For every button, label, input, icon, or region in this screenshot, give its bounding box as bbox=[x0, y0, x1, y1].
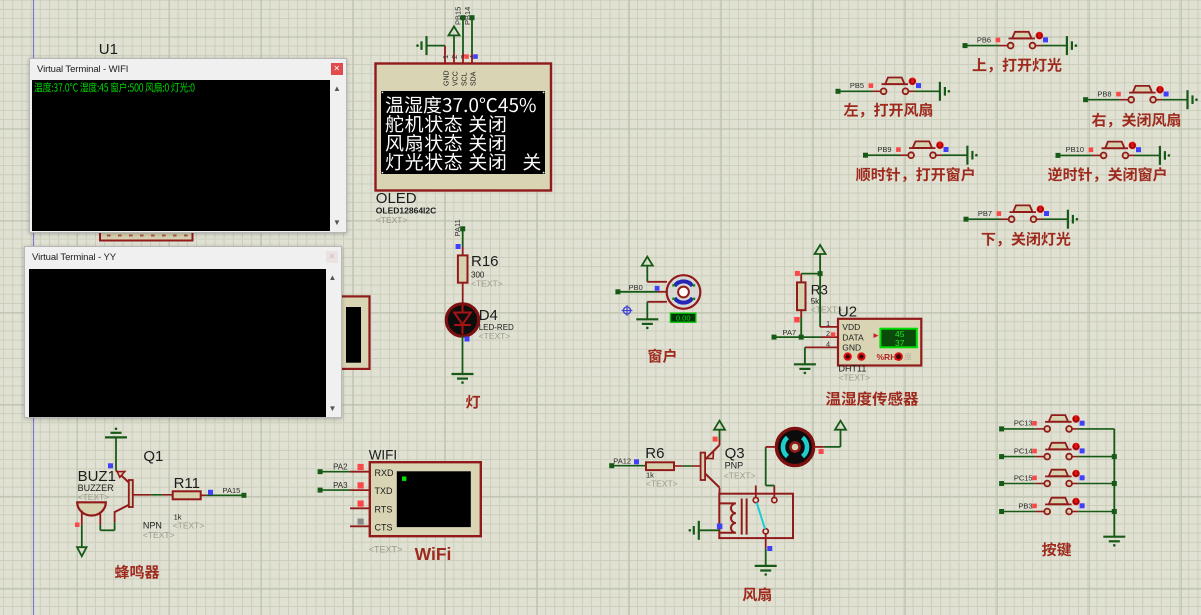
net label PB15 bbox=[454, 7, 463, 25]
svg-text:PA2: PA2 bbox=[333, 463, 348, 472]
svg-text:RXD: RXD bbox=[375, 468, 395, 478]
sensor U2 DHT11 body bbox=[838, 319, 921, 366]
wire D4-gnd bbox=[462, 336, 464, 374]
caption 蜂鸣器 bbox=[115, 565, 159, 579]
caption 左，打开风扇 bbox=[844, 103, 932, 118]
svg-text:PB9: PB9 bbox=[877, 145, 891, 154]
net label PA7 bbox=[783, 328, 797, 337]
wire motor pin top bbox=[647, 281, 667, 283]
svg-text:1: 1 bbox=[826, 321, 830, 328]
sheet border (blue) bbox=[33, 0, 35, 615]
svg-text:SDA: SDA bbox=[471, 71, 478, 86]
wire motor pin bottom to gnd bbox=[647, 302, 667, 320]
push button PB5 bbox=[836, 78, 951, 101]
power terminal (motor) bbox=[642, 257, 653, 282]
motor angle display 0.00 bbox=[670, 313, 695, 322]
wire R11 to PA15 bbox=[201, 493, 247, 498]
power terminal (Q3) bbox=[714, 421, 725, 430]
ground (buzzer top, inverted) bbox=[105, 428, 127, 471]
net label PA3 bbox=[333, 481, 348, 490]
push button PB6 bbox=[963, 32, 1078, 55]
pin square blue bbox=[456, 244, 461, 249]
D4 labels bbox=[479, 307, 514, 341]
svg-text:RTS: RTS bbox=[375, 504, 393, 514]
net label PA2 bbox=[333, 463, 348, 472]
keypad ground bus wire bbox=[1113, 429, 1115, 537]
svg-text:<TEXT>: <TEXT> bbox=[369, 545, 403, 555]
origin marker (blue crosshair) bbox=[622, 305, 633, 316]
svg-text:<TEXT>: <TEXT> bbox=[724, 471, 756, 481]
U2 adjust knobs bbox=[845, 352, 912, 362]
push button PC13 bbox=[999, 415, 1114, 432]
caption 风扇 bbox=[743, 587, 771, 601]
IC U1 (mostly hidden behind terminal windows) bbox=[100, 150, 193, 241]
resistor R3 bbox=[797, 282, 806, 310]
R16 labels bbox=[471, 253, 503, 289]
Q1 labels bbox=[143, 448, 175, 540]
net label PA12 bbox=[613, 456, 631, 465]
R11 labels bbox=[173, 475, 205, 531]
push button PB7 bbox=[964, 205, 1079, 228]
caption 下，关闭灯光 bbox=[982, 232, 1071, 247]
push button PC14 bbox=[999, 443, 1114, 460]
wire buzzer left pin to output arrow bbox=[75, 511, 87, 557]
fan motor bbox=[776, 428, 813, 465]
svg-text:1: 1 bbox=[441, 55, 450, 59]
U2 pin names bbox=[842, 322, 864, 353]
power terminal (DHT11) bbox=[815, 245, 826, 274]
svg-text:OLED: OLED bbox=[376, 190, 417, 207]
svg-text:R11: R11 bbox=[174, 475, 200, 492]
wire PA12 bbox=[609, 463, 646, 468]
push button PB9 bbox=[863, 141, 978, 164]
svg-text:PC14: PC14 bbox=[1014, 446, 1033, 455]
svg-text:D4: D4 bbox=[479, 307, 498, 324]
caption 逆时针，关闭窗户 bbox=[1048, 167, 1166, 182]
pin square red Q3 bbox=[713, 437, 718, 442]
OLED screen text bbox=[386, 96, 541, 171]
svg-text:PB15: PB15 bbox=[454, 7, 463, 25]
wire VDD from junction bbox=[820, 274, 838, 327]
svg-text:R16: R16 bbox=[471, 253, 499, 270]
push button PC15 bbox=[999, 470, 1114, 487]
svg-text:<TEXT>: <TEXT> bbox=[376, 215, 408, 225]
svg-text:%RH: %RH bbox=[877, 352, 897, 362]
svg-text:PB10: PB10 bbox=[1066, 145, 1084, 154]
wire PA2 bbox=[318, 469, 351, 474]
wire R6-Q3 bbox=[674, 465, 701, 467]
pin square blue D4 bbox=[465, 337, 470, 342]
svg-text:PB0: PB0 bbox=[629, 283, 643, 292]
svg-text:<TEXT>: <TEXT> bbox=[471, 279, 503, 289]
svg-text:<TEXT>: <TEXT> bbox=[839, 373, 871, 383]
svg-text:TXD: TXD bbox=[375, 486, 394, 496]
wire PB0 bbox=[615, 289, 667, 294]
wire GND pin bbox=[805, 347, 838, 364]
resistor R16 bbox=[458, 255, 468, 282]
svg-text:PA3: PA3 bbox=[333, 481, 348, 490]
ground (relay coil left) bbox=[689, 521, 720, 540]
svg-text:PB3: PB3 bbox=[1018, 501, 1032, 510]
pin numbers and squares U2 bbox=[826, 321, 835, 349]
svg-text:PA7: PA7 bbox=[783, 328, 797, 337]
caption 温湿度传感器 bbox=[826, 391, 918, 406]
pin square red R3 top bbox=[795, 271, 800, 276]
OLED labels bbox=[376, 190, 436, 225]
svg-text:NPN: NPN bbox=[143, 521, 162, 531]
Q3 labels bbox=[724, 445, 756, 481]
svg-text:<TEXT>: <TEXT> bbox=[479, 331, 511, 341]
U2 arrow marker bbox=[874, 333, 879, 338]
svg-text:PC13: PC13 bbox=[1014, 419, 1033, 428]
wire PB15 bbox=[461, 15, 466, 63]
label 灯 bbox=[466, 395, 480, 409]
svg-text:37: 37 bbox=[895, 338, 905, 348]
wire R3 bottom bbox=[800, 310, 802, 337]
net label PA15 bbox=[223, 486, 241, 495]
push button PB3 bbox=[999, 498, 1114, 515]
wire PA7 bbox=[772, 335, 838, 340]
svg-text:<TEXT>: <TEXT> bbox=[646, 479, 678, 489]
ground (keypad) bbox=[1103, 537, 1125, 547]
WiFi pin squares bbox=[358, 464, 364, 525]
transistor Q1 bbox=[115, 471, 133, 513]
pin square blue PB0 bbox=[655, 286, 660, 291]
svg-text:DATA: DATA bbox=[842, 332, 864, 342]
wire PA11 bbox=[460, 226, 465, 255]
caption 按键 bbox=[1042, 542, 1071, 556]
pin square blue Q1 bbox=[108, 463, 113, 468]
svg-text:2: 2 bbox=[450, 55, 459, 59]
wire relay common to gnd bbox=[766, 546, 773, 566]
svg-text:SCL: SCL bbox=[462, 72, 469, 86]
motor MG (window servo) bbox=[667, 275, 701, 309]
svg-text:4: 4 bbox=[826, 341, 830, 348]
svg-text:GND: GND bbox=[444, 70, 451, 86]
push button PB8 bbox=[1083, 86, 1198, 109]
net label PB0 bbox=[629, 283, 643, 292]
OLED pin names GND VCC SCL SDA bbox=[444, 70, 478, 86]
svg-text:U1: U1 bbox=[99, 41, 118, 58]
svg-text:CTS: CTS bbox=[375, 522, 393, 532]
resistor R11 bbox=[173, 491, 201, 499]
wire Q3 collector to power bbox=[719, 430, 721, 445]
power terminal (OLED VCC) bbox=[449, 26, 460, 63]
pin square red fan bbox=[819, 449, 824, 454]
svg-text:0.00: 0.00 bbox=[676, 314, 691, 323]
pin square blue relay bbox=[717, 524, 723, 530]
junction bbox=[818, 271, 823, 276]
svg-text:Q3: Q3 bbox=[725, 445, 745, 462]
svg-text:Q1: Q1 bbox=[143, 448, 163, 465]
svg-text:PC15: PC15 bbox=[1014, 473, 1033, 482]
wire R16-D4 bbox=[462, 283, 464, 303]
svg-text:VCC: VCC bbox=[453, 71, 460, 86]
pin square red R3 bottom bbox=[794, 317, 800, 323]
wire Q3 emitter to relay bbox=[719, 488, 721, 494]
OLED screen bbox=[381, 91, 545, 174]
svg-text:<TEXT>: <TEXT> bbox=[173, 521, 205, 531]
relay RL (fan) bbox=[719, 486, 793, 549]
caption 上，打开灯光 bbox=[973, 58, 1062, 73]
caption 窗户 bbox=[648, 349, 675, 363]
ground (motor) bbox=[636, 319, 658, 329]
svg-text:GND: GND bbox=[842, 343, 861, 353]
pin numbers 1 2 3 4 bbox=[441, 55, 477, 59]
svg-text:WIFI: WIFI bbox=[369, 448, 398, 463]
WiFi labels bbox=[369, 544, 452, 564]
net label PA11 bbox=[453, 219, 462, 236]
svg-text:OLED12864I2C: OLED12864I2C bbox=[376, 206, 436, 216]
pin square blue R11 bbox=[208, 490, 213, 495]
svg-text:2: 2 bbox=[826, 331, 830, 338]
WiFi module body bbox=[370, 462, 481, 536]
svg-text:VDD: VDD bbox=[842, 322, 860, 332]
WiFi pin names bbox=[375, 468, 395, 533]
wire fan right to power bbox=[814, 430, 841, 447]
svg-text:R6: R6 bbox=[645, 445, 664, 462]
ground (DHT11) bbox=[794, 364, 816, 374]
svg-text:PA11: PA11 bbox=[453, 219, 462, 236]
svg-text:U2: U2 bbox=[838, 304, 857, 321]
U1 label bbox=[99, 41, 118, 58]
resistor R6 bbox=[646, 462, 674, 470]
svg-text:PB5: PB5 bbox=[850, 81, 864, 90]
wire relay NO to fan bbox=[766, 447, 777, 486]
OLED display module body bbox=[376, 64, 552, 191]
U2 labels bbox=[839, 364, 871, 383]
push button PB10 bbox=[1056, 142, 1171, 165]
WiFi screen bbox=[397, 471, 471, 527]
U2 green display bbox=[880, 329, 916, 348]
wire buzzer right pin to Q1 collector bbox=[100, 511, 114, 530]
svg-text:PB7: PB7 bbox=[978, 209, 992, 218]
svg-text:PNP: PNP bbox=[725, 461, 744, 471]
R6 labels bbox=[645, 445, 677, 489]
buzzer BUZ1 bbox=[77, 502, 106, 515]
wire Q1 base to R11 bbox=[133, 494, 173, 496]
wire PB14 bbox=[470, 15, 475, 63]
svg-text:<TEXT>: <TEXT> bbox=[143, 530, 175, 540]
svg-text:<TEXT>: <TEXT> bbox=[78, 492, 110, 502]
ground (lamp) bbox=[452, 374, 474, 384]
transistor Q3 bbox=[701, 445, 720, 488]
svg-text:PB14: PB14 bbox=[463, 7, 472, 25]
svg-text:WiFi: WiFi bbox=[415, 544, 452, 564]
wire pin1 bbox=[444, 46, 446, 64]
module (hidden behind terminal) bbox=[330, 296, 370, 369]
LED D4 bbox=[446, 304, 478, 336]
svg-text:PB8: PB8 bbox=[1097, 90, 1111, 99]
virtual terminal window WIFI bbox=[29, 58, 347, 233]
net label PB14 bbox=[463, 7, 472, 25]
BUZ1 labels bbox=[78, 468, 116, 502]
caption 右，关闭风扇 bbox=[1092, 113, 1180, 128]
U2 label bbox=[838, 304, 857, 321]
wire to R3 top bbox=[801, 274, 820, 283]
pin square blue R6 bbox=[634, 459, 639, 464]
virtual terminal window YY bbox=[24, 246, 342, 418]
svg-text:PA12: PA12 bbox=[613, 456, 631, 465]
caption 顺时针，打开窗户 bbox=[856, 167, 974, 182]
ground (relay switch) bbox=[755, 566, 777, 576]
WiFi pin stubs bbox=[350, 472, 370, 527]
WIFI label bbox=[369, 448, 398, 463]
power terminal (fan) bbox=[835, 421, 846, 430]
R3 labels bbox=[811, 283, 843, 315]
ground (OLED pin1) bbox=[416, 36, 445, 55]
wire PA3 bbox=[318, 488, 351, 493]
pin squares bbox=[464, 54, 478, 59]
svg-text:PB6: PB6 bbox=[977, 35, 991, 44]
bus junctions bbox=[1112, 454, 1117, 514]
svg-text:PA15: PA15 bbox=[223, 486, 241, 495]
